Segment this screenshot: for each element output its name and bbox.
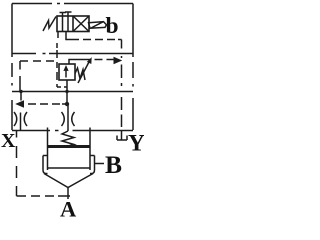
svg-text:B: B bbox=[105, 150, 122, 179]
svg-text:b: b bbox=[106, 13, 119, 39]
svg-text:Y: Y bbox=[128, 131, 144, 157]
svg-text:A: A bbox=[60, 197, 77, 221]
svg-text:X: X bbox=[1, 130, 16, 152]
